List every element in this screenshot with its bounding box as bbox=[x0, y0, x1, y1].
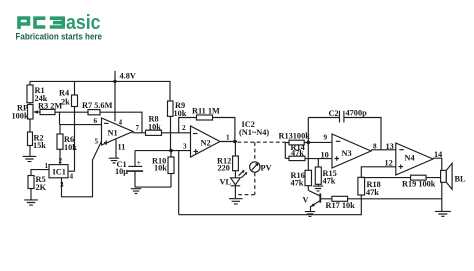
svg-text:R13100k: R13100k bbox=[279, 132, 311, 141]
svg-text:(N1~N4): (N1~N4) bbox=[239, 128, 269, 137]
dashed wire IC2 line bbox=[238, 120, 286, 142]
IC1 bbox=[45, 157, 74, 189]
svg-text:2: 2 bbox=[59, 157, 63, 165]
resistor R13 bbox=[279, 132, 311, 159]
ground under V bbox=[305, 212, 315, 217]
resistor R12 bbox=[217, 142, 238, 178]
svg-text:10: 10 bbox=[321, 151, 329, 160]
wire R17 to speaker return bbox=[348, 198, 442, 200]
resistor R3 bbox=[38, 102, 62, 115]
svg-text:11: 11 bbox=[118, 143, 126, 152]
potentiometer RP bbox=[12, 104, 40, 121]
svg-text:+: + bbox=[137, 159, 141, 167]
svg-text:1: 1 bbox=[226, 134, 230, 142]
svg-text:R11 1M: R11 1M bbox=[192, 107, 220, 116]
svg-text:4: 4 bbox=[119, 119, 123, 127]
op-amp N2 bbox=[182, 124, 230, 157]
wire non-inverting node to N2 pin3 bbox=[135, 150, 191, 152]
svg-text:2: 2 bbox=[182, 124, 186, 132]
ground under VL bbox=[229, 199, 243, 204]
resistor R6 bbox=[57, 125, 77, 165]
svg-text:N3: N3 bbox=[342, 149, 352, 158]
logo PCBasic bbox=[19, 12, 101, 34]
ground under BL bbox=[435, 211, 451, 216]
svg-text:10k: 10k bbox=[174, 109, 187, 118]
svg-text:10μ: 10μ bbox=[115, 167, 128, 176]
svg-text:10k: 10k bbox=[64, 143, 77, 152]
ground under C1 bbox=[131, 189, 141, 194]
svg-text:R7 5.6M: R7 5.6M bbox=[82, 101, 113, 110]
resistor R9 bbox=[168, 101, 187, 151]
svg-text:N4: N4 bbox=[405, 154, 415, 163]
resistor R10 bbox=[152, 151, 174, 174]
wire R4 node to IC1 pin4 bbox=[68, 125, 75, 172]
wire C1 bottom to R10 bottom bbox=[135, 174, 171, 188]
node N3 pin9 junction bbox=[307, 141, 311, 145]
transistor V bbox=[303, 186, 321, 212]
wire C2 riser and pin9 bbox=[308, 118, 332, 171]
resistor R5 bbox=[28, 175, 47, 200]
capacitor C1 bbox=[115, 151, 143, 188]
svg-text:6: 6 bbox=[94, 117, 98, 125]
svg-text:15k: 15k bbox=[33, 141, 46, 150]
svg-text:N2: N2 bbox=[201, 139, 211, 148]
svg-text:VL: VL bbox=[220, 178, 232, 187]
svg-text:47k: 47k bbox=[291, 179, 304, 188]
wire bottom rail bbox=[179, 195, 362, 215]
svg-text:3: 3 bbox=[183, 143, 187, 151]
svg-text:IC1: IC1 bbox=[53, 168, 66, 177]
ground under R2 bbox=[23, 156, 37, 161]
resistor R1 bbox=[27, 81, 48, 104]
resistor R11 feedback bbox=[179, 107, 235, 142]
wire N1 pin11 to ground bbox=[115, 139, 117, 158]
op-amp N4 bbox=[385, 142, 443, 175]
svg-text:N1: N1 bbox=[108, 129, 118, 138]
resistor R17 bbox=[326, 196, 356, 210]
svg-text:47k: 47k bbox=[323, 177, 336, 186]
wire R8 to N2 pin2 bbox=[162, 132, 191, 134]
svg-text:1: 1 bbox=[45, 162, 49, 170]
resistor R14 bbox=[285, 143, 305, 160]
svg-text:10k: 10k bbox=[154, 164, 167, 173]
node 4.8V tap bbox=[113, 71, 136, 122]
svg-text:V: V bbox=[303, 196, 309, 205]
wire inverting input node N1 bbox=[60, 112, 102, 124]
svg-text:2k: 2k bbox=[61, 98, 70, 107]
resistor R2 bbox=[28, 119, 47, 156]
ground under R15 bbox=[313, 186, 323, 191]
svg-text:4.8V: 4.8V bbox=[120, 72, 136, 81]
svg-text:47k: 47k bbox=[291, 148, 304, 157]
wire IC1 pin3 to N1 pin5 bbox=[62, 141, 102, 197]
svg-text:C2: C2 bbox=[329, 109, 339, 118]
svg-text:5: 5 bbox=[95, 138, 99, 146]
node junction R9 R10 pin3 bbox=[169, 149, 173, 153]
svg-text:7: 7 bbox=[136, 124, 140, 132]
wire IC1 pin1 to R5 bbox=[31, 170, 49, 176]
wire top supply rail bbox=[30, 81, 171, 101]
resistor R4 bbox=[59, 81, 78, 124]
svg-text:10k: 10k bbox=[148, 123, 161, 132]
svg-text:PV: PV bbox=[261, 164, 272, 173]
LED VL bbox=[220, 170, 248, 199]
wire pin3 node to bottom rail bbox=[178, 151, 180, 215]
svg-text:R3 2M: R3 2M bbox=[38, 102, 62, 111]
svg-text:R17 10k: R17 10k bbox=[326, 201, 356, 210]
wire N1 output bbox=[133, 132, 146, 134]
resistor R7 bbox=[82, 101, 113, 115]
capacitor C2 bbox=[308, 109, 381, 150]
svg-text:R19 100k: R19 100k bbox=[402, 180, 436, 189]
svg-text:2K: 2K bbox=[36, 183, 47, 192]
svg-text:Fabrication starts here: Fabrication starts here bbox=[16, 32, 103, 42]
op-amp N3 bbox=[321, 134, 378, 169]
svg-text:4: 4 bbox=[70, 173, 74, 181]
svg-text:R4: R4 bbox=[59, 89, 69, 98]
wire V base to R17 bbox=[320, 198, 332, 200]
resistor R15 bbox=[315, 159, 336, 186]
ground under N1 bbox=[109, 158, 119, 163]
op-amp N1 bbox=[94, 117, 140, 152]
svg-text:9: 9 bbox=[324, 134, 328, 142]
svg-text:4700p: 4700p bbox=[346, 109, 368, 118]
wire pin10 bbox=[305, 158, 332, 160]
speaker BL bbox=[441, 163, 466, 189]
wire N3 output to N4 pin13 bbox=[371, 149, 396, 151]
resistor R16 bbox=[291, 170, 312, 187]
resistor R18 bbox=[358, 177, 381, 197]
svg-text:100k: 100k bbox=[12, 112, 29, 121]
resistor R19 bbox=[361, 175, 442, 188]
wire R3 to R7 to feedback bbox=[55, 112, 142, 133]
svg-text:220: 220 bbox=[218, 164, 230, 173]
resistor R8 bbox=[146, 115, 162, 136]
wire N4 pin12 bbox=[361, 167, 396, 178]
ground under R5 bbox=[24, 200, 38, 205]
wire N2 output bbox=[220, 140, 237, 144]
wire N4 output to speaker bbox=[433, 158, 442, 211]
svg-text:12: 12 bbox=[385, 159, 393, 168]
svg-text:47k: 47k bbox=[366, 188, 379, 197]
photodetector PV bbox=[235, 142, 271, 195]
svg-text:BL: BL bbox=[455, 175, 467, 184]
